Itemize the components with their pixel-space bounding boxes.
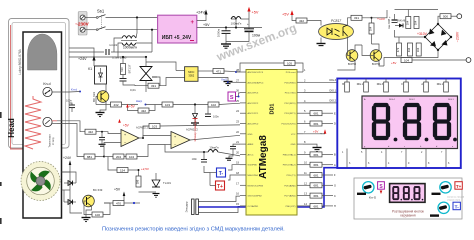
PSU box IBP +5_24V [158, 15, 197, 43]
svg-text:AVCC: AVCC [248, 153, 254, 156]
op-amp input wires [57, 121, 85, 132]
svg-text:3052: 3052 [188, 74, 194, 78]
module Head outer border [9, 19, 70, 149]
svg-text:1N4148: 1N4148 [397, 20, 406, 23]
resistor 471 [198, 70, 213, 72]
svg-text:470: 470 [116, 201, 121, 205]
svg-text:+24V: +24V [196, 11, 205, 15]
resistors 479/434/104 vertical row [397, 43, 402, 56]
+5V red arrow [247, 7, 250, 12]
svg-text:кнопки на тильнiй: кнопки на тильнiй [447, 196, 465, 199]
svg-text:PC817: PC817 [331, 19, 341, 23]
resistor 186 vertical [136, 176, 141, 187]
svg-text:432: 432 [88, 130, 93, 134]
svg-text:Термопара: Термопара [48, 134, 52, 148]
resistor 103 [146, 104, 163, 106]
svg-text:432: 432 [141, 109, 146, 113]
svg-text:~230V: ~230V [456, 31, 460, 42]
pin names left column [248, 71, 265, 208]
digit 1 [374, 105, 388, 138]
svg-text:Lukey 868D-878A: Lukey 868D-878A [18, 48, 22, 74]
capacitor tc filter [101, 131, 103, 133]
svg-text:100n: 100n [213, 115, 219, 119]
inductor 100uH [235, 26, 237, 28]
svg-text:+: + [124, 133, 126, 137]
7-seg indicator body [362, 96, 458, 149]
svg-text:471: 471 [216, 69, 221, 73]
svg-text:ИБП +5_24V: ИБП +5_24V [162, 35, 192, 41]
svg-text:ADC2/PC2: ADC2/PC2 [248, 102, 259, 105]
svg-text:ADC5/SCL/PC5: ADC5/SCL/PC5 [248, 71, 264, 74]
svg-text:Head: Head [7, 118, 16, 138]
svg-text:G: G [334, 185, 336, 188]
svg-text:DIG.1: DIG.1 [329, 89, 336, 92]
svg-text:Позначення резисторів наведені: Позначення резисторів наведені згідно з … [102, 225, 285, 232]
resistor 500 top right [438, 16, 440, 24]
cap 100n left [69, 103, 72, 105]
zener diode [194, 103, 196, 105]
svg-text:BT137: BT137 [128, 64, 132, 73]
connector circle top right [457, 14, 462, 19]
caps 100n pair [201, 159, 207, 161]
cap electrolytic top right [392, 19, 398, 21]
resistor 510 vertical [121, 64, 126, 75]
svg-text:GND: GND [291, 144, 296, 146]
thermocouple wires [52, 120, 57, 122]
svg-text:DIG.3: DIG.3 [377, 83, 384, 86]
svg-text:+5V: +5V [203, 23, 210, 27]
svg-text:ADC4/SDA/PC4: ADC4/SDA/PC4 [248, 81, 265, 84]
svg-text:100n: 100n [192, 158, 198, 161]
wire 186 to TL431 [139, 191, 157, 193]
svg-text:C: C [334, 195, 336, 198]
svg-text:PD0 (RXD): PD0 (RXD) [285, 82, 296, 84]
svg-text:105: 105 [287, 61, 292, 65]
heater grey dome [28, 34, 57, 70]
resistor 102 [208, 102, 219, 107]
resistor 103 fb [139, 126, 149, 138]
svg-text:100n: 100n [66, 99, 72, 103]
svg-text:Штекер термопари: Штекер термопари [193, 118, 197, 141]
red heater wire loop [11, 25, 26, 149]
svg-text:DD1: DD1 [270, 103, 276, 114]
top resistor row on display board [342, 79, 448, 93]
svg-text:681: 681 [313, 153, 318, 157]
node dots left pins [235, 71, 237, 73]
svg-text:PB0 (ICP): PB0 (ICP) [286, 206, 296, 208]
svg-text:Энкодер: Энкодер [185, 201, 189, 212]
wire from Kn-d [52, 91, 69, 93]
svg-text:100м: 100м [252, 34, 261, 38]
svg-text:ATMega8: ATMega8 [258, 135, 269, 179]
svg-text:PD1 (TXD): PD1 (TXD) [285, 93, 296, 95]
svg-text:DIG.3: DIG.3 [329, 79, 336, 82]
svg-text:331: 331 [354, 16, 359, 20]
wires DIG to display [303, 81, 337, 83]
thermocouple junction circle [43, 117, 52, 126]
svg-text:PD4 (XCK/T0): PD4 (XCK/T0) [282, 124, 296, 126]
connector circle right mid [466, 58, 471, 63]
node TxD blue [133, 202, 135, 204]
svg-text:К-типу: К-типу [51, 136, 55, 144]
wire mains bottom [106, 29, 158, 31]
resistor 432 b [138, 108, 149, 113]
decimal points [394, 138, 398, 142]
svg-text:AREF: AREF [248, 143, 254, 146]
svg-text:ADC1/PC1: ADC1/PC1 [248, 112, 259, 115]
ground TL431 [153, 194, 160, 198]
resistor 470 [104, 202, 113, 204]
svg-text:104: 104 [406, 20, 410, 25]
svg-text:681: 681 [313, 112, 318, 116]
svg-text:−: − [174, 143, 176, 147]
svg-text:479: 479 [396, 47, 400, 52]
pin names right column [282, 71, 296, 208]
svg-text:Нагр: Нагр [136, 99, 143, 103]
wire mains top [106, 17, 158, 19]
connector T- box [217, 168, 226, 177]
svg-text:432: 432 [113, 103, 118, 107]
svg-text:DIG.2: DIG.2 [329, 100, 336, 103]
svg-text:тип К2: тип К2 [109, 43, 118, 47]
svg-text:Kn-S: Kn-S [369, 196, 376, 200]
svg-text:T-: T- [219, 171, 224, 177]
pin numbers left [236, 68, 239, 206]
cap 100n mid [205, 113, 211, 115]
svg-text:104: 104 [404, 58, 409, 62]
resistor 331 [348, 18, 352, 25]
iron tube body [23, 32, 62, 218]
svg-text:510: 510 [120, 67, 124, 72]
svg-text:D: D [334, 123, 336, 126]
IC DD1 ATMega8 [246, 70, 297, 216]
svg-text:186: 186 [136, 179, 140, 184]
chip pin stubs left [240, 72, 246, 206]
fan wires [62, 171, 71, 173]
resistor 681 seg row [303, 111, 336, 116]
svg-text:PB6 (XTAL1): PB6 (XTAL1) [283, 153, 296, 156]
svg-text:881: 881 [87, 155, 92, 159]
scan edge marks [0, 112, 2, 224]
svg-text:102: 102 [211, 103, 216, 107]
resistor 104 v1 [406, 17, 411, 29]
transistor Q2 [346, 50, 358, 62]
svg-text:681: 681 [313, 194, 318, 198]
svg-text:103: 103 [165, 103, 170, 107]
svg-text:331: 331 [151, 84, 156, 88]
svg-text:681: 681 [313, 173, 318, 177]
svg-text:TL431: TL431 [163, 181, 171, 185]
svg-text:681: 681 [313, 204, 318, 208]
svg-text:104: 104 [414, 20, 418, 25]
svg-text:H: H [334, 205, 336, 208]
display pin labels [364, 98, 454, 148]
svg-text:+5V: +5V [313, 130, 318, 134]
svg-text:104: 104 [129, 155, 134, 159]
svg-text:BC 639: BC 639 [92, 92, 96, 102]
svg-text:1000м: 1000м [217, 29, 221, 37]
button T+ [440, 182, 451, 193]
svg-text:+: + [191, 20, 195, 26]
svg-text:+24V: +24V [78, 57, 87, 61]
svg-text:100: 100 [95, 213, 100, 217]
+24V rail with arrow [197, 15, 206, 21]
svg-text:100мкГн: 100мкГн [231, 22, 242, 26]
svg-text:PD6 (AIN0): PD6 (AIN0) [284, 184, 295, 187]
svg-text:PB7 (XTAL2): PB7 (XTAL2) [283, 164, 296, 167]
opto-triac U3 MOC3052 [159, 78, 185, 86]
+5V rail [197, 27, 262, 29]
svg-text:+24V: +24V [63, 156, 72, 160]
fan [21, 162, 60, 201]
svg-text:−: − [124, 141, 126, 145]
svg-text:681: 681 [313, 184, 318, 188]
wire y57 [69, 56, 146, 58]
svg-text:PD5 (T1): PD5 (T1) [287, 175, 296, 177]
svg-text:T-: T- [455, 204, 460, 209]
svg-text:0,01: 0,01 [130, 88, 136, 92]
svg-text:стороні плати: стороні плати [447, 198, 461, 201]
ground MOC [198, 78, 228, 82]
svg-text:+5V: +5V [129, 105, 136, 109]
svg-text:DIG.1: DIG.1 [448, 99, 454, 101]
resistor 881 tc [57, 124, 84, 157]
diode VD fan2 [64, 200, 76, 205]
svg-text:103: 103 [152, 124, 157, 128]
svg-text:+2,5V: +2,5V [141, 167, 149, 171]
digit 3 [435, 105, 449, 138]
svg-text:681: 681 [313, 163, 318, 167]
relay K1 [95, 66, 107, 84]
inductor 10uH [190, 151, 208, 153]
svg-text:ADC3/PC3: ADC3/PC3 [248, 92, 259, 95]
resistor 104 vertical [369, 23, 374, 34]
svg-text:OC1A/PB1: OC1A/PB1 [248, 205, 259, 208]
svg-text:SS/OC1B/PB2: SS/OC1B/PB2 [248, 196, 263, 198]
svg-text:BC 639: BC 639 [93, 188, 103, 192]
connector T+ box [216, 181, 225, 190]
button T- [438, 202, 449, 213]
filter inductor L 1000uH [136, 18, 138, 34]
op-amp U4.2 [171, 132, 190, 149]
ground pin8 [303, 144, 317, 147]
bridge bottom wire [384, 50, 438, 66]
svg-text:+5V: +5V [282, 13, 289, 17]
pin numbers right [304, 68, 307, 206]
display board blue outline [337, 79, 461, 169]
resistor R opto 432 [296, 18, 307, 23]
svg-text:DIG.1: DIG.1 [437, 83, 444, 86]
svg-text:MOC: MOC [188, 70, 194, 74]
svg-text:500: 500 [443, 15, 448, 19]
digit 2 [405, 105, 419, 138]
control panel box [354, 178, 462, 219]
svg-text:104: 104 [416, 47, 420, 52]
ground Q1 [100, 102, 106, 113]
capacitor 100u [248, 19, 250, 29]
svg-text:PD2 (INT0): PD2 (INT0) [284, 103, 295, 105]
svg-text:Kn-d: Kn-d [43, 82, 50, 86]
svg-text:204: 204 [116, 155, 121, 159]
transistor Q3 [370, 50, 382, 62]
svg-text:T+: T+ [456, 184, 462, 189]
svg-text:PC6 reset: PC6 reset [286, 71, 296, 74]
+5V pin7 [303, 132, 321, 135]
node S box [228, 92, 236, 101]
svg-text:0,5мк 250В: 0,5мк 250В [112, 56, 126, 60]
capacitor 0.01 [122, 75, 124, 79]
encoder blue wire [198, 168, 338, 207]
capacitor 0.5u 250V [105, 49, 107, 55]
bottom pin columns [347, 149, 446, 168]
svg-text:432: 432 [299, 19, 304, 23]
svg-text:T+: T+ [217, 184, 223, 190]
svg-text:104: 104 [369, 26, 373, 31]
svg-text:434: 434 [407, 47, 411, 52]
svg-text:SCK/PB5: SCK/PB5 [248, 165, 258, 167]
svg-text:Ss1: Ss1 [97, 9, 105, 14]
svg-text:DIG.4: DIG.4 [389, 99, 395, 101]
connector X1 mains [78, 12, 87, 36]
ground opto [320, 38, 322, 44]
resistor 154 [108, 157, 117, 171]
svg-text:+5V: +5V [123, 124, 130, 128]
svg-text:DIG.1: DIG.1 [357, 83, 364, 86]
svg-text:1000мкГн: 1000мкГн [123, 46, 137, 50]
svg-text:+5V: +5V [114, 188, 121, 192]
svg-text:K1: K1 [88, 67, 92, 71]
svg-text:1мк 400В: 1мк 400В [388, 18, 391, 29]
resistor 104 v2 [414, 17, 419, 29]
svg-text:PD3 (INT1): PD3 (INT1) [284, 113, 295, 115]
svg-text:керування: керування [400, 214, 415, 218]
shunt TL431 [152, 180, 160, 187]
svg-text:+5V: +5V [252, 11, 259, 15]
wire band from module [69, 48, 94, 61]
mini display [390, 184, 425, 203]
capacitor 1000u [225, 26, 227, 28]
module Head inner border [12, 23, 66, 145]
svg-text:DIG.2: DIG.2 [409, 99, 415, 101]
chip pin stubs right [297, 72, 303, 206]
node S panel [378, 182, 385, 190]
resistor 331 triac gate [148, 83, 159, 88]
svg-text:ADC0/PC0: ADC0/PC0 [248, 123, 259, 126]
svg-text:+: + [247, 22, 249, 26]
ground PSU [226, 31, 249, 44]
svg-text:Кн-S: Кн-S [221, 78, 227, 82]
svg-text:VCC: VCC [291, 134, 296, 136]
bridge rectifier VD [425, 24, 451, 50]
svg-text:+5V: +5V [391, 61, 396, 65]
svg-text:10мкГн: 10мкГн [209, 146, 219, 150]
crystal caps left pins [233, 144, 240, 146]
svg-text:~230V: ~230V [75, 22, 89, 27]
resistor 432 tc [85, 129, 96, 134]
svg-text:MISO/PB4: MISO/PB4 [248, 175, 259, 177]
heater coil (red zigzag) [25, 96, 41, 149]
svg-text:154: 154 [120, 168, 125, 172]
svg-text:681: 681 [313, 122, 318, 126]
svg-text:PD7 (AIN1): PD7 (AIN1) [284, 195, 295, 198]
svg-text:MOSI/OC2/PB3: MOSI/OC2/PB3 [248, 185, 264, 187]
svg-text:S: S [230, 95, 234, 101]
node [136, 16, 138, 18]
svg-text:+: + [174, 135, 176, 139]
svg-text:GND: GND [248, 134, 253, 136]
button Kn-S [363, 182, 374, 193]
ground Q4 [86, 206, 92, 217]
reset resistor 105 [295, 63, 303, 72]
svg-text:Kn-d: Kn-d [71, 88, 77, 92]
resistor 104 right [401, 58, 412, 63]
resistor row 204 104 [104, 156, 113, 158]
